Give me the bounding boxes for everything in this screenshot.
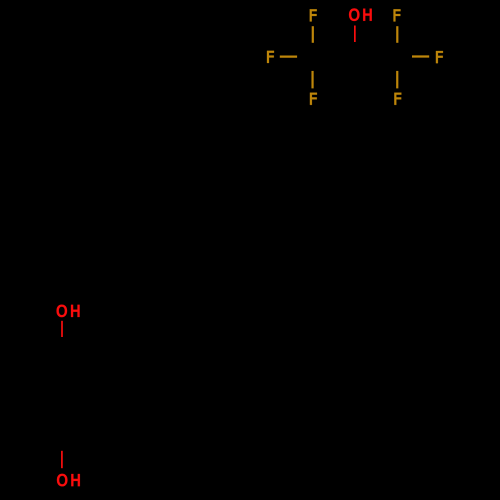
wire: F-C bond, top-right CF3 up [396, 26, 398, 43]
atom label F top-right [393, 9, 400, 21]
atom label H of bottom OH [71, 474, 80, 486]
atom label O of bottom OH [57, 474, 68, 487]
atom label F bottom-right [394, 93, 401, 105]
wire: O-C bond, bottom OH (ring) [61, 451, 63, 468]
atom label O of top OH [349, 8, 360, 21]
atom label H of top OH [363, 9, 372, 21]
atom label H of middle OH [71, 305, 80, 317]
wire: F-C bond, far-right horizontal [412, 55, 429, 57]
wire: F-C bond, top-left CF3 up [312, 26, 314, 43]
wire: O-C bond, top OH [354, 26, 356, 43]
wire: F-C bond, top-left CF3 down [311, 71, 313, 89]
wire: F-C bond, far-left horizontal [280, 55, 297, 57]
atom label F far-right [436, 51, 443, 63]
atom label O of middle OH [57, 305, 68, 318]
wire: O-C bond, middle OH (ring) [61, 321, 63, 337]
atom label F far-left [267, 51, 274, 63]
atom label F bottom-left [310, 93, 317, 105]
wire: F-C bond, top-right CF3 down [396, 71, 398, 89]
atom label F top-left [310, 9, 317, 21]
